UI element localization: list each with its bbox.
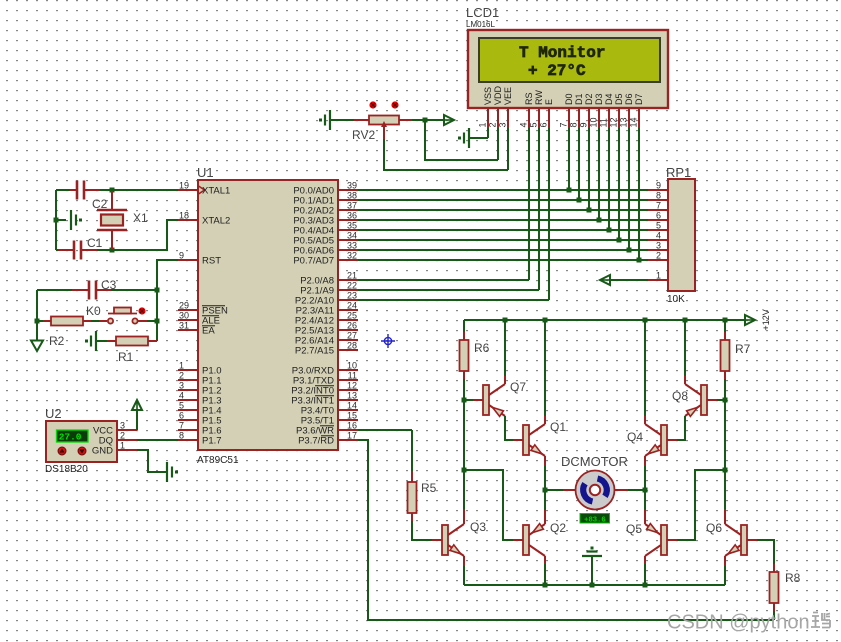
LCD1 pin 12 D5 (609, 93, 625, 128)
wire R2 to K0 (91, 320, 99, 322)
svg-text:GND: GND (92, 446, 113, 457)
wire Q7 emitter to Q1 base (505, 416, 514, 440)
transistor Q2 (513, 524, 545, 556)
wire P0.6 row (358, 249, 648, 251)
RP1 pin 7 (648, 201, 668, 211)
resistor pack RP1 (668, 179, 695, 291)
capacitor C1 (74, 241, 81, 260)
svg-text:VSS: VSS (483, 87, 493, 105)
wire A2 to Q2 base (464, 470, 514, 540)
Q5 collector stub (644, 556, 646, 564)
svg-text:+ 27°C: + 27°C (528, 62, 586, 80)
svg-text:R1: R1 (118, 350, 134, 364)
svg-text:R8: R8 (785, 571, 801, 585)
wire emitter rail (464, 584, 725, 586)
svg-text:6: 6 (656, 211, 661, 221)
svg-text:10K: 10K (667, 294, 685, 305)
svg-text:AT89C51: AT89C51 (197, 455, 239, 466)
svg-text:D4: D4 (604, 93, 614, 105)
wire Q2 collector to rail (544, 564, 546, 585)
svg-text:10: 10 (347, 361, 357, 371)
U1 pin 26 P2.5/A13 (295, 321, 358, 337)
wire VCC up (136, 410, 138, 430)
power arrow RP1 common (600, 275, 610, 285)
junction motor right (643, 488, 648, 493)
XTAL1 clock marker (199, 186, 205, 194)
junction XTAL1 node (110, 188, 115, 193)
svg-text:27.0: 27.0 (59, 431, 82, 442)
wire GND down (137, 450, 166, 472)
svg-text:12: 12 (347, 381, 357, 391)
svg-text:Q4: Q4 (627, 430, 643, 444)
wire RV2 right to +5V arrow (412, 119, 444, 121)
svg-text:9: 9 (579, 122, 589, 127)
svg-text:25: 25 (347, 311, 357, 321)
C3 right stub (96, 289, 111, 291)
junction node A2 (462, 468, 467, 473)
svg-text:6: 6 (539, 122, 549, 127)
power arrow U2 VCC (132, 400, 142, 410)
U2 pin 3 VCC (93, 421, 137, 437)
U1 pin 17 P3.7/RD (298, 431, 358, 447)
transistor Q6 (725, 524, 757, 556)
svg-text:1: 1 (179, 361, 184, 371)
wire Q5 collector to rail (644, 564, 646, 585)
wire R5 to Q3 base (412, 521, 433, 540)
svg-text:CSDN @python: CSDN @python (667, 612, 810, 634)
wire Q8 emitter to Q4 base (677, 416, 685, 440)
RP1 pin 4 (648, 231, 668, 241)
LCD1 pin 3 VEE (498, 87, 514, 128)
U1 pin 4 P1.3 (178, 391, 222, 407)
svg-text:D3: D3 (594, 93, 604, 105)
wire Q1 emitter to motor (544, 466, 546, 490)
U1 pin 31 EA (178, 321, 215, 337)
svg-text:VDD: VDD (493, 85, 503, 105)
wire node B down (724, 400, 726, 470)
svg-text:D1: D1 (574, 93, 584, 105)
svg-text:RS: RS (524, 92, 534, 105)
junction D7/P0.7 (637, 258, 642, 263)
origin marker (381, 334, 395, 348)
wire to ground (56, 219, 66, 221)
U1 pin 38 P0.1/AD1 (293, 191, 358, 207)
wire P2.2 to E (358, 299, 549, 301)
LCD1 pin 10 D3 (589, 93, 605, 128)
microcontroller U1 AT89C51 (198, 180, 338, 450)
junction XTAL2 node (110, 248, 115, 253)
svg-text:22: 22 (347, 281, 357, 291)
svg-text:R6: R6 (474, 341, 490, 355)
svg-text:LM016L: LM016L (466, 20, 495, 29)
capacitor C3 (89, 281, 96, 300)
svg-text:+12V: +12V (761, 309, 771, 330)
U1 pin 12 P3.2/INT0 (291, 381, 358, 397)
svg-text:+83.6: +83.6 (584, 516, 606, 524)
U1 pin 9 RST (178, 251, 221, 267)
junction rail x685 (683, 318, 688, 323)
U2 pin 2 DQ (99, 431, 137, 447)
power +5V arrow (VDD) (444, 115, 454, 125)
RV2 right pin stub (399, 119, 412, 121)
svg-text:P3.7/RD: P3.7/RD (298, 436, 334, 447)
wire VSS to ground (470, 137, 488, 139)
U1 pin 6 P1.5 (178, 411, 222, 427)
wire motor left lead (545, 489, 563, 491)
RP1 pin 2 (648, 251, 668, 261)
svg-text:5: 5 (656, 221, 661, 231)
K0 state dot (138, 307, 145, 314)
R8 top stub (773, 564, 775, 572)
RP1 pin 8 (648, 191, 668, 201)
svg-text:P2.7/A15: P2.7/A15 (295, 346, 334, 357)
junction D3/P0.3 (597, 218, 602, 223)
wire LCD RW drop (538, 128, 540, 290)
junction rail x645 (643, 318, 648, 323)
LCD1 pin 9 D2 (579, 93, 595, 128)
R1 left stub (107, 340, 116, 342)
RP1 pin 9 (648, 181, 668, 191)
svg-text:17: 17 (347, 431, 357, 441)
LCD1 pin 1 VSS (478, 87, 494, 128)
junction D4/P0.4 (607, 228, 612, 233)
svg-text:29: 29 (179, 301, 189, 311)
Q3 collector stub (463, 509, 465, 524)
transistor Q7 (473, 384, 505, 416)
transistor Q3 (432, 524, 464, 556)
R6 bottom stub (463, 371, 465, 379)
svg-text:38: 38 (347, 191, 357, 201)
svg-text:33: 33 (347, 241, 357, 251)
svg-text:4: 4 (519, 122, 529, 127)
potentiometer RV2 (369, 116, 399, 125)
svg-text:DS18B20: DS18B20 (45, 464, 88, 475)
U1 pin 3 P1.2 (178, 381, 222, 397)
Q4 emitter stub (644, 456, 646, 466)
R7 bottom stub (724, 371, 726, 379)
junction D6/P0.6 (627, 248, 632, 253)
junction node B2 (723, 468, 728, 473)
resistor R2 (51, 317, 83, 326)
wire LCD D1 drop (578, 128, 580, 200)
wire LCD D4 drop (608, 128, 610, 230)
ground symbol left of RV2 (319, 110, 330, 130)
wire rail to Q4 collector (644, 320, 646, 416)
wire P3.6 net down (411, 430, 413, 471)
resistor R1 (116, 337, 148, 346)
wire LCD RS drop (528, 128, 530, 280)
LCD1 pin 5 RW (529, 90, 545, 128)
LCD1 pin 14 D7 (629, 93, 645, 128)
svg-text:30: 30 (179, 311, 189, 321)
LCD display LCD1 (LM016L) (468, 30, 668, 108)
svg-text:15: 15 (347, 411, 357, 421)
wire node A down (463, 400, 465, 470)
resistor R7 (721, 340, 730, 371)
wire base Q7 (464, 399, 473, 401)
svg-text:34: 34 (347, 231, 357, 241)
svg-text:P1.7: P1.7 (202, 436, 222, 447)
C3 left stub (72, 289, 89, 291)
svg-text:39: 39 (347, 181, 357, 191)
svg-text:Q7: Q7 (510, 380, 526, 394)
junction rail x505 (503, 318, 508, 323)
svg-text:Q1: Q1 (550, 420, 566, 434)
U1 pin 8 P1.7 (178, 431, 222, 447)
wire P2.0 to RS (358, 279, 529, 281)
svg-text:7: 7 (559, 122, 569, 127)
svg-text:Q8: Q8 (672, 389, 688, 403)
svg-text:3: 3 (656, 241, 661, 251)
U1 pin 27 P2.6/A14 (295, 331, 358, 347)
C1 left stub (58, 249, 74, 251)
svg-text:RP1: RP1 (666, 165, 691, 180)
wire C3 left (37, 289, 72, 291)
U1 pin 32 P0.7/AD7 (293, 251, 358, 267)
LCD1 pin 4 RS (519, 92, 535, 128)
wire LCD D5 drop (618, 128, 620, 240)
LCD1 pin 7 D0 (559, 93, 575, 128)
svg-text:2: 2 (488, 122, 498, 127)
U1 pin 13 P3.3/INT1 (291, 391, 358, 407)
junction emitter rail x592 (590, 583, 595, 588)
U1 pin 1 P1.0 (178, 361, 222, 377)
LCD1 pin 11 D4 (599, 93, 615, 128)
wire LCD D2 drop (588, 128, 590, 210)
wire left crystal rail (55, 190, 57, 250)
svg-text:5: 5 (529, 122, 539, 127)
R6 top stub (463, 332, 465, 340)
Q6 collector stub (724, 509, 726, 524)
wire ground to RV2 left (331, 119, 354, 121)
junction RV2/VDD (423, 118, 428, 123)
watermark CJK glyph (811, 613, 830, 628)
svg-text:E: E (544, 99, 554, 105)
Q4 collector stub (644, 416, 646, 424)
wire P3.6 to R5 (358, 429, 412, 431)
U2 pin 1 GND (92, 441, 137, 457)
U1 pin 7 P1.6 (178, 421, 222, 437)
svg-text:C1: C1 (87, 236, 103, 250)
wire reset left rail (36, 290, 38, 341)
LCD1 pin 8 D1 (569, 93, 585, 128)
svg-text:X1: X1 (133, 211, 148, 225)
RP1 pin 6 (648, 211, 668, 221)
wire rail to R7 (724, 320, 726, 332)
svg-text:9: 9 (179, 251, 184, 261)
U1 pin 39 P0.0/AD0 (293, 181, 358, 197)
svg-text:7: 7 (179, 421, 184, 431)
U1 pin 11 P3.1/TXD (293, 371, 358, 387)
svg-text:VEE: VEE (503, 87, 513, 105)
svg-text:11: 11 (348, 371, 357, 381)
R5 top stub (411, 471, 413, 482)
wire LCD D6 drop (628, 128, 630, 250)
junction emitter rail x645 (643, 583, 648, 588)
wire RP1 pin1 to power (610, 279, 648, 281)
U1 pin 30 ALE (178, 311, 220, 327)
svg-text:DCMOTOR: DCMOTOR (561, 454, 628, 469)
wire LCD D3 drop (598, 128, 600, 220)
svg-text:1: 1 (120, 441, 125, 451)
svg-text:7: 7 (656, 201, 661, 211)
temperature sensor U2 DS18B20 (46, 421, 117, 462)
svg-text:R5: R5 (421, 481, 437, 495)
motor left stub (563, 489, 576, 491)
svg-text:14: 14 (347, 401, 357, 411)
junction D2/P0.2 (587, 208, 592, 213)
junction D0/P0.0 (567, 188, 572, 193)
RP1 pin 3 (648, 241, 668, 251)
junction rail x725 (723, 318, 728, 323)
svg-text:6: 6 (179, 411, 184, 421)
wire LCD D0 drop (568, 128, 570, 190)
U1 pin 21 P2.0/A8 (300, 271, 358, 287)
wire base Q8 (717, 399, 725, 401)
wire LCD D7 drop (638, 128, 640, 260)
transistor Q8 (685, 384, 717, 416)
wire Q3 emitter to rail (463, 566, 465, 585)
ground symbol left of R1 (85, 331, 96, 351)
svg-text:12: 12 (609, 117, 619, 127)
resistor R5 (408, 482, 417, 513)
ground arrow below R2 rail (31, 341, 43, 352)
U2 up button (58, 447, 66, 455)
transistor Q4 (645, 424, 677, 456)
LCD1 pin 2 VDD (488, 85, 504, 128)
Q3 emitter stub (463, 556, 465, 566)
svg-text:3: 3 (120, 421, 125, 431)
U1 pin 37 P0.2/AD2 (293, 201, 358, 217)
wire P0.5 row (358, 239, 648, 241)
wire P3.7 net to R8 (358, 440, 774, 620)
U1 pin 36 P0.3/AD3 (293, 211, 358, 227)
junction D5/P0.5 (617, 238, 622, 243)
svg-text:P0.7/AD7: P0.7/AD7 (293, 256, 334, 267)
wire rail corner to C1 (56, 249, 58, 251)
svg-text:XTAL2: XTAL2 (202, 216, 230, 227)
junction K0 node (155, 319, 160, 324)
ground symbol U2 (167, 462, 178, 482)
svg-text:26: 26 (347, 321, 357, 331)
wire motor right lead (628, 489, 645, 491)
wire DQ to P1.7 (137, 439, 178, 441)
wire rail to Q1 collector (544, 320, 546, 416)
resistor R6 (460, 340, 469, 371)
svg-text:8: 8 (656, 191, 661, 201)
wire VDD link (425, 120, 498, 160)
junction ground tap (54, 218, 59, 223)
svg-text:2: 2 (656, 251, 661, 261)
U1 pin 23 P2.2/A10 (295, 291, 358, 307)
R7 top stub (724, 332, 726, 340)
transistor Q1 (513, 424, 545, 456)
C1 right stub (81, 249, 97, 251)
RV2 terminal state dot right (391, 101, 398, 108)
svg-text:XTAL1: XTAL1 (202, 186, 230, 197)
wire LCD VEE drop (507, 128, 509, 170)
transistor Q5 (645, 524, 677, 556)
svg-text:4: 4 (656, 231, 661, 241)
U1 pin 15 P3.5/T1 (301, 411, 358, 427)
svg-text:37: 37 (347, 201, 357, 211)
svg-text:D6: D6 (624, 93, 634, 105)
svg-text:RW: RW (534, 90, 544, 105)
Q5 emitter stub (644, 510, 646, 524)
RP1 pin 1 (648, 271, 668, 281)
wire Q6 base to R8 (757, 540, 774, 564)
svg-text:31: 31 (179, 321, 189, 331)
junction motor left (543, 488, 548, 493)
Q8 collector stub (684, 376, 686, 384)
svg-text:24: 24 (347, 301, 357, 311)
wire K0 to rail (147, 320, 157, 322)
U1 pin 2 P1.1 (178, 371, 222, 387)
svg-text:R2: R2 (49, 334, 65, 348)
wire rail to R2 (37, 320, 43, 322)
motor right stub (614, 489, 628, 491)
svg-text:D5: D5 (614, 93, 624, 105)
svg-text:10: 10 (589, 117, 599, 127)
wire P0.3 row (358, 219, 648, 221)
R5 bottom stub (411, 513, 413, 521)
U1 pin 10 P3.0/RXD (292, 361, 358, 377)
wire LCD VDD drop (497, 128, 499, 160)
RV2 wiper arrow (383, 127, 385, 139)
svg-text:2: 2 (120, 431, 125, 441)
wire ground to R1 (97, 340, 107, 342)
capacitor C2 (77, 181, 84, 200)
svg-text:Q5: Q5 (626, 522, 642, 536)
ground symbol below motor (582, 547, 602, 557)
C2 right stub (84, 189, 100, 191)
wire rail to C2 (56, 189, 70, 191)
wire R6 to Q7 base (463, 379, 465, 400)
svg-text:35: 35 (347, 221, 357, 231)
svg-text:32: 32 (347, 251, 357, 261)
pushbutton K0 (99, 308, 147, 324)
R8 bottom stub (773, 603, 775, 611)
svg-text:9: 9 (656, 181, 661, 191)
Q2 collector stub (544, 556, 546, 564)
junction emitter rail x545 (543, 583, 548, 588)
U1 pin 24 P2.3/A11 (296, 301, 358, 317)
wire rail to R6 (463, 320, 465, 332)
svg-text:RV2: RV2 (352, 128, 375, 142)
wire B2 to Q6 collector (724, 470, 726, 509)
R1 right stub (148, 340, 157, 342)
U1 pin 34 P0.5/AD5 (293, 231, 358, 247)
svg-text:36: 36 (347, 211, 357, 221)
junction Q8 base node (723, 398, 728, 403)
svg-text:8: 8 (569, 122, 579, 127)
svg-text:1: 1 (656, 271, 661, 281)
svg-text:RST: RST (202, 256, 221, 267)
svg-text:23: 23 (347, 291, 357, 301)
junction D1/P0.1 (577, 198, 582, 203)
wire RST down (157, 260, 178, 290)
U1 pin 29 PSEN (178, 301, 228, 317)
wire C3 to RST rail (111, 289, 157, 291)
svg-text:EA: EA (202, 326, 215, 337)
svg-text:Q6: Q6 (706, 521, 722, 535)
Q6 emitter stub (724, 556, 726, 566)
svg-text:3: 3 (179, 381, 184, 391)
wire P0.0 row (358, 189, 648, 191)
svg-text:D2: D2 (584, 93, 594, 105)
resistor R8 (770, 572, 779, 603)
wire P0.1 row (358, 199, 648, 201)
